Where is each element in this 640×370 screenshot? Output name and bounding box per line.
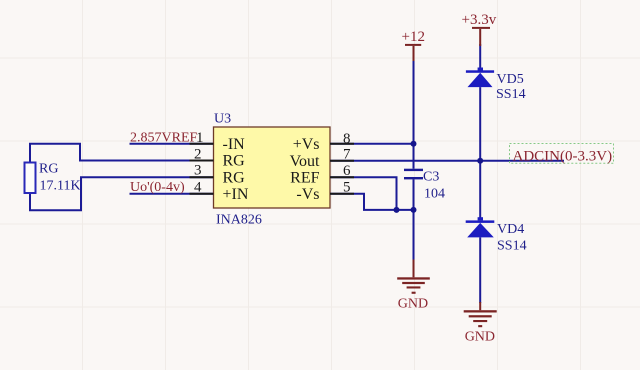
ground GND (right, below VD4) bbox=[464, 302, 497, 327]
junction pin8 / +12 / C3 bbox=[411, 141, 417, 147]
wire Vout / ADCIN rail bbox=[330, 160, 564, 162]
wire +12 rail vertical to C3 top bbox=[413, 60, 415, 169]
U3 pin 2 RG stub bbox=[190, 146, 246, 169]
svg-text:104: 104 bbox=[424, 186, 445, 201]
svg-text:REF: REF bbox=[290, 170, 319, 187]
wire VD4 anode to GND bbox=[479, 237, 481, 303]
svg-text:SS14: SS14 bbox=[497, 239, 527, 254]
svg-text:SS14: SS14 bbox=[496, 87, 526, 102]
svg-text:4: 4 bbox=[194, 180, 202, 196]
svg-text:-IN: -IN bbox=[223, 136, 246, 153]
U3 pin 5 -Vs stub bbox=[296, 179, 354, 203]
wire RG bottom loop to pin 3 bbox=[30, 177, 214, 210]
power +12 symbol bbox=[402, 29, 425, 61]
wire pin 8 +Vs to +12 rail bbox=[330, 143, 414, 145]
svg-text:2.857VREF: 2.857VREF bbox=[130, 131, 198, 146]
wire VD5 anode to ADCIN rail bbox=[479, 87, 481, 161]
svg-text:RG: RG bbox=[39, 161, 58, 176]
svg-text:+3.3v: +3.3v bbox=[462, 12, 497, 28]
wire C3 bottom to GND bbox=[413, 179, 415, 260]
U3 pin 3 RG stub bbox=[190, 163, 246, 187]
svg-text:U3: U3 bbox=[214, 112, 231, 127]
svg-text:INA826: INA826 bbox=[216, 213, 262, 228]
wire ADCIN rail to VD4 cathode bbox=[479, 161, 481, 218]
svg-text:VD4: VD4 bbox=[497, 222, 524, 237]
junction REF / ground rail bbox=[394, 207, 400, 213]
resistor RG body bbox=[25, 163, 36, 194]
wire pin 6 REF down bbox=[330, 177, 397, 210]
ground GND (middle, below C3) bbox=[397, 260, 430, 294]
svg-text:RG: RG bbox=[223, 170, 246, 187]
svg-text:GND: GND bbox=[465, 330, 495, 345]
svg-text:6: 6 bbox=[343, 163, 351, 179]
svg-text:C3: C3 bbox=[423, 170, 439, 185]
junction ADCIN / diode rail bbox=[477, 158, 483, 164]
svg-text:+IN: +IN bbox=[223, 186, 249, 203]
svg-text:RG: RG bbox=[223, 153, 246, 170]
wire net 2.857VREF to pin 1 bbox=[130, 143, 214, 145]
svg-text:7: 7 bbox=[343, 146, 351, 162]
svg-text:Vout: Vout bbox=[290, 153, 320, 170]
U3 pin 6 REF stub bbox=[290, 163, 354, 186]
U3 pin 7 Vout stub bbox=[290, 146, 354, 170]
U3 pin 1 -IN stub bbox=[190, 130, 246, 153]
svg-text:ADCIN(0-3.3V): ADCIN(0-3.3V) bbox=[513, 149, 613, 165]
svg-text:GND: GND bbox=[398, 297, 428, 312]
svg-text:VD5: VD5 bbox=[497, 72, 524, 87]
svg-text:5: 5 bbox=[343, 179, 351, 195]
svg-text:8: 8 bbox=[343, 131, 351, 147]
wire net Uo'(0-4v) to pin 4 bbox=[130, 193, 214, 195]
U3 pin 8 +Vs stub bbox=[293, 131, 354, 153]
op-amp U3 INA826 body bbox=[214, 127, 331, 208]
wire pin 5 -Vs down to ground rail bbox=[330, 194, 414, 210]
svg-text:-Vs: -Vs bbox=[296, 186, 319, 203]
U3 pin 4 +IN stub bbox=[190, 180, 249, 204]
junction C3 / ground rail bbox=[411, 207, 417, 213]
wire RG top loop to pin 2 bbox=[30, 144, 214, 163]
svg-text:2: 2 bbox=[194, 146, 202, 162]
net label ADCIN(0-3.3V) with dashed selection box bbox=[510, 144, 614, 165]
diode VD5 (cathode bar top, triangle pointing up) bbox=[466, 68, 494, 88]
capacitor C3 bbox=[404, 169, 423, 180]
svg-text:+12: +12 bbox=[402, 29, 425, 45]
svg-text:+Vs: +Vs bbox=[293, 136, 320, 153]
power +3.3v symbol bbox=[462, 12, 497, 46]
wire +3.3v to VD5 bbox=[479, 44, 481, 70]
svg-text:17.11K: 17.11K bbox=[40, 179, 81, 194]
svg-text:Uo'(0-4v): Uo'(0-4v) bbox=[130, 180, 185, 195]
svg-text:3: 3 bbox=[194, 163, 202, 179]
diode VD4 (cathode bar top, triangle pointing up) bbox=[466, 217, 495, 237]
